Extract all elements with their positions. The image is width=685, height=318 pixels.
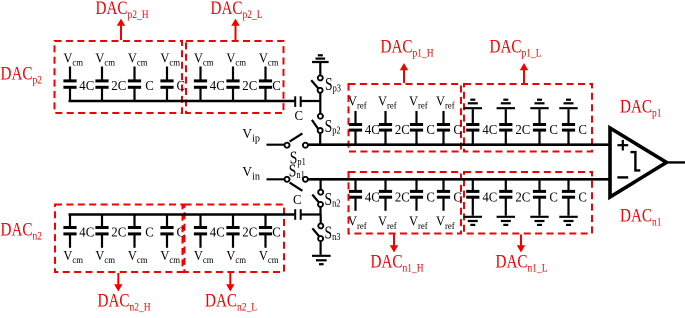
label C (bottom bridge) <box>293 192 302 207</box>
capacitor C of DAC_p1_L <box>562 125 575 145</box>
label 2C <box>515 122 530 137</box>
label V_cm <box>160 247 180 265</box>
switch S_n2 <box>312 190 323 207</box>
capacitor 4C of DAC_p1_H <box>349 111 362 145</box>
label V_cm <box>128 247 148 265</box>
label V_cm <box>259 247 279 265</box>
capacitor 4C of DAC_n1_H <box>349 179 362 211</box>
label C <box>453 189 462 204</box>
label DAC_p2 <box>1 63 42 87</box>
label C <box>453 122 462 137</box>
label V_cm <box>259 50 279 68</box>
wire V_in <box>267 178 285 180</box>
DAC_n2_L dashed box <box>185 205 285 273</box>
wire S_n2 to bridge node <box>319 208 321 215</box>
svg-text:4C: 4C <box>482 189 497 204</box>
svg-text:C: C <box>426 122 435 137</box>
label DAC_p2_L <box>211 0 263 21</box>
capacitor 2C of DAC_p2 (H) <box>95 67 108 102</box>
capacitor 2C of DAC_p2 (L) <box>226 67 239 102</box>
label C <box>549 122 558 137</box>
label V_ref <box>348 213 368 231</box>
svg-text:C: C <box>177 77 186 92</box>
label 4C <box>482 122 497 137</box>
svg-text:C: C <box>578 189 587 204</box>
wire ground to S_p3 <box>319 63 321 75</box>
switch S_n1 <box>285 177 308 191</box>
label 2C <box>111 77 126 92</box>
label C <box>578 122 587 137</box>
capacitor C of DAC_p2 (H) <box>128 67 141 102</box>
label C <box>145 224 154 239</box>
capacitor 2C of DAC_n2 (H) <box>95 215 108 248</box>
capacitor C of DAC_n2 (L) <box>259 215 272 248</box>
wire bus DAC_n2 <box>69 213 295 216</box>
wire bottom main bus <box>309 178 611 181</box>
label C (top bridge) <box>295 107 304 122</box>
label 2C <box>242 224 257 239</box>
capacitor 2C of DAC_n1_H <box>379 179 392 211</box>
label V_cm <box>194 247 214 265</box>
label DAC_p1_H <box>381 36 434 60</box>
label C <box>145 77 154 92</box>
capacitor 2C of DAC_p1_H <box>379 111 392 145</box>
DAC_p1_H dashed box <box>349 84 462 152</box>
wire S_p3 to node / node to S_p2 <box>319 93 321 113</box>
capacitor C of DAC_n1_H <box>410 179 423 211</box>
svg-text:4C: 4C <box>365 189 380 204</box>
capacitor C of DAC_n1_L <box>533 179 546 197</box>
wire capacitor to ground <box>567 198 569 216</box>
svg-text:C: C <box>295 107 304 122</box>
label V_cm <box>95 247 115 265</box>
svg-text:C: C <box>272 77 281 92</box>
capacitor 2C of DAC_n2 (L) <box>226 215 239 248</box>
label DAC_p2_H <box>96 0 149 21</box>
arrow to DAC_p1_L <box>520 63 528 83</box>
DAC_n1_L dashed box <box>464 172 592 234</box>
wire bridge node to S_n3 <box>320 215 322 223</box>
label C <box>549 189 558 204</box>
svg-text:2C: 2C <box>111 77 126 92</box>
wire ground to capacitor <box>538 109 540 123</box>
label DAC_n1_L <box>496 251 548 275</box>
capacitor C of DAC_n1_L <box>562 179 575 197</box>
label S_p3 <box>325 76 341 95</box>
svg-text:4C: 4C <box>210 77 225 92</box>
switch S_p2 <box>312 114 323 133</box>
label DAC_p1_L <box>490 36 542 60</box>
label V_cm <box>128 50 148 68</box>
capacitor C of DAC_p2 (L) <box>259 67 272 102</box>
svg-text:C: C <box>145 224 154 239</box>
ground above capacitor <box>464 100 482 109</box>
wire top main bus <box>309 143 611 146</box>
arrow to DAC_p2_H <box>117 19 125 40</box>
label 2C <box>395 122 410 137</box>
label C <box>426 189 435 204</box>
arrow to DAC_n1_L <box>517 235 525 253</box>
label DAC_p1 <box>620 96 661 120</box>
label V_ref <box>378 93 398 111</box>
arrow to DAC_p2_L <box>231 19 239 40</box>
capacitor C of DAC_p1_L <box>533 125 546 145</box>
label C <box>177 224 186 239</box>
ground below capacitor <box>559 217 577 225</box>
label V_ref <box>378 213 398 231</box>
comparator U1 <box>610 128 667 197</box>
svg-text:C: C <box>177 224 186 239</box>
ground (top, inverted) <box>312 55 329 62</box>
label V_ref <box>348 93 368 111</box>
svg-text:2C: 2C <box>242 224 257 239</box>
svg-text:4C: 4C <box>79 224 94 239</box>
label V_ref <box>436 213 456 231</box>
svg-text:4C: 4C <box>210 224 225 239</box>
label C <box>272 77 281 92</box>
wire ground to capacitor <box>505 109 507 123</box>
svg-text:C: C <box>145 77 154 92</box>
capacitor C of DAC_n2 (H) <box>160 215 173 248</box>
svg-text:2C: 2C <box>515 189 530 204</box>
wire S_p2 to top bus <box>319 134 321 145</box>
capacitor C of DAC_n2 (H) <box>128 215 141 248</box>
svg-text:2C: 2C <box>395 122 410 137</box>
wire bus DAC_p2 <box>69 100 295 103</box>
label C <box>578 189 587 204</box>
label 4C <box>79 77 94 92</box>
label V_ref <box>409 213 429 231</box>
label 2C <box>242 77 257 92</box>
svg-text:C: C <box>578 122 587 137</box>
wire capacitor to ground <box>505 198 507 216</box>
svg-text:C: C <box>453 189 462 204</box>
ground above capacitor <box>559 100 577 109</box>
label DAC_n1 <box>620 205 661 229</box>
capacitor 4C of DAC_n2 (H) <box>63 215 76 248</box>
wire capacitor to ground <box>538 198 540 216</box>
label 4C <box>210 77 225 92</box>
switch S_n3 <box>312 223 323 241</box>
label S_n1 <box>289 162 305 181</box>
wire ground to capacitor <box>567 109 569 123</box>
label 2C <box>111 224 126 239</box>
ground below capacitor <box>530 217 548 225</box>
label V_cm <box>95 50 115 68</box>
svg-text:2C: 2C <box>395 189 410 204</box>
label 4C <box>79 224 94 239</box>
label DAC_n2_H <box>98 290 151 314</box>
label S_p1 <box>290 149 306 168</box>
wire S_n3 to ground <box>320 242 322 255</box>
label C <box>426 122 435 137</box>
svg-text:C: C <box>549 122 558 137</box>
capacitor C of DAC_n1_H <box>437 179 450 211</box>
capacitor 4C of DAC_n2 (L) <box>194 215 207 248</box>
DAC_n1_H dashed box <box>349 172 462 234</box>
DAC_p1_L dashed box <box>464 84 592 152</box>
label 2C <box>515 189 530 204</box>
arrow to DAC_n1_H <box>390 235 398 253</box>
capacitor C of DAC_p1_H <box>437 111 450 145</box>
capacitor C of DAC_p1_H <box>410 111 423 145</box>
svg-text:C: C <box>453 122 462 137</box>
bridge capacitor C (top) <box>295 96 320 107</box>
label C <box>177 77 186 92</box>
label V_cm <box>63 50 83 68</box>
ground above capacitor <box>530 100 548 109</box>
wire bottom bus to S_n2 <box>320 179 322 189</box>
DAC_p2_L dashed box <box>186 41 284 113</box>
svg-text:C: C <box>549 189 558 204</box>
DAC_n2_H dashed box <box>55 205 183 273</box>
capacitor 4C of DAC_p2 (L) <box>194 67 207 102</box>
DAC_p2_H dashed box <box>55 41 183 113</box>
wire capacitor to ground <box>472 198 474 216</box>
ground above capacitor <box>497 100 515 109</box>
arrow to DAC_n2_H <box>114 273 122 292</box>
arrow to DAC_p1_H <box>400 63 408 83</box>
capacitor 2C of DAC_n1_L <box>499 179 512 197</box>
wire V_ip <box>267 144 285 146</box>
label V_in <box>242 164 260 183</box>
label V_ip <box>242 125 260 144</box>
svg-text:4C: 4C <box>79 77 94 92</box>
label V_cm <box>226 247 246 265</box>
wire comparator output <box>667 161 685 163</box>
label 4C <box>210 224 225 239</box>
svg-text:C: C <box>272 224 281 239</box>
label V_cm <box>63 247 83 265</box>
label V_cm <box>226 50 246 68</box>
switch S_p1 <box>285 133 308 147</box>
capacitor 2C of DAC_p1_L <box>499 125 512 145</box>
label V_ref <box>409 93 429 111</box>
svg-text:2C: 2C <box>242 77 257 92</box>
switch S_p3 <box>311 75 323 92</box>
label S_p2 <box>325 118 341 137</box>
label DAC_n2_L <box>205 290 257 314</box>
label S_n3 <box>325 224 341 243</box>
label 4C <box>365 122 380 137</box>
bridge capacitor C (bottom) <box>295 209 320 220</box>
ground below capacitor <box>497 217 515 225</box>
capacitor C of DAC_p2 (H) <box>160 67 173 102</box>
arrow to DAC_n2_L <box>226 273 234 292</box>
label S_n2 <box>325 190 341 209</box>
svg-text:4C: 4C <box>482 122 497 137</box>
ground below capacitor <box>464 217 482 225</box>
label V_cm <box>194 50 214 68</box>
label 2C <box>395 189 410 204</box>
label V_ref <box>436 93 456 111</box>
svg-text:2C: 2C <box>111 224 126 239</box>
capacitor 4C of DAC_p1_L <box>466 125 479 145</box>
label DAC_n1_H <box>371 251 424 275</box>
label V_cm <box>160 50 180 68</box>
label DAC_n2 <box>1 219 42 243</box>
label C <box>272 224 281 239</box>
capacitor 4C of DAC_p2 (H) <box>63 67 76 102</box>
label 4C <box>365 189 380 204</box>
label 4C <box>482 189 497 204</box>
svg-text:4C: 4C <box>365 122 380 137</box>
svg-text:C: C <box>426 189 435 204</box>
ground (bottom) <box>312 256 331 264</box>
capacitor 4C of DAC_n1_L <box>466 179 479 197</box>
svg-text:2C: 2C <box>515 122 530 137</box>
wire ground to capacitor <box>472 109 474 123</box>
svg-text:C: C <box>293 192 302 207</box>
